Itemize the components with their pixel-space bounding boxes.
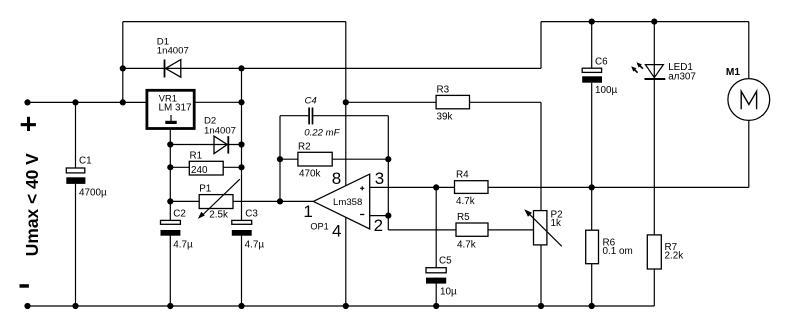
- C1 positive plate: [66, 168, 85, 173]
- D2 cathode bar: [227, 136, 229, 154]
- LED LED1: [631, 62, 696, 83]
- node : P2 ground junction: [538, 303, 544, 309]
- wire : P2 bottom vertical: [540, 245, 542, 306]
- svg-text:4700µ: 4700µ: [79, 188, 107, 199]
- op-amp OP1 Lm358: [313, 174, 369, 229]
- R2 body box: [298, 152, 332, 166]
- wire : top-right horizontal rail: [541, 21, 749, 23]
- resistor R2: [298, 142, 332, 180]
- wire : D2 horizontal wire: [170, 144, 241, 146]
- C2 positive plate: [161, 220, 181, 224]
- C5 positive plate: [426, 268, 446, 273]
- C6 negative plate: [582, 76, 602, 82]
- resistor R1: [189, 151, 223, 176]
- P1 wiper arrow shaft: [202, 179, 240, 215]
- capacitor C4: [304, 96, 340, 139]
- R7 body box: [647, 235, 661, 269]
- wire : R5 horizontal wire to P2: [388, 229, 533, 231]
- wire : P2 top vertical: [540, 102, 542, 210]
- wire : C4 wire right segment: [313, 115, 388, 117]
- node : D2 cathode junction: [238, 141, 244, 147]
- capacitor C3: [232, 208, 265, 250]
- wire : M1 top vertical: [748, 22, 750, 79]
- svg-text:3: 3: [375, 169, 384, 188]
- node : C6 top rail junction: [589, 19, 595, 25]
- P1 wiper arrow head: [198, 212, 205, 219]
- node : R1 right junction: [238, 164, 244, 170]
- M1 motor circle: [728, 79, 770, 121]
- resistor R3: [436, 85, 469, 123]
- wire : op-amp pin 2 stub: [370, 215, 389, 217]
- capacitor C1: [66, 156, 107, 199]
- wire : feedback left vertical x=280: [279, 116, 281, 202]
- svg-text:10µ: 10µ: [440, 287, 457, 298]
- M1 letter M glyph: [741, 91, 756, 109]
- capacitor C2: [161, 208, 194, 250]
- node : R6 ground junction: [589, 303, 595, 309]
- svg-text:R5: R5: [457, 212, 470, 223]
- wire : C1 vertical lower part: [75, 184, 77, 306]
- C3 positive plate: [232, 220, 252, 224]
- node : ground left terminal: [24, 303, 30, 309]
- diode D2: [204, 116, 236, 154]
- wire : M1 bottom vertical: [748, 121, 750, 188]
- node : R6 top junction: [589, 184, 595, 190]
- wire : ground bottom rail: [28, 305, 655, 307]
- svg-text:2.5k: 2.5k: [209, 209, 228, 220]
- D2 triangle: [214, 136, 227, 154]
- diode D1: [157, 37, 189, 78]
- wire : R6 vertical: [591, 187, 593, 306]
- minus terminal symbol: [20, 284, 29, 288]
- wire : + input horizontal rail: [28, 101, 147, 103]
- C2 negative plate: [161, 230, 181, 236]
- svg-text:C2: C2: [173, 208, 186, 219]
- svg-text:2: 2: [374, 216, 383, 235]
- svg-text:1k: 1k: [551, 218, 561, 229]
- R4 body box: [455, 181, 489, 194]
- svg-text:1n4007: 1n4007: [157, 46, 189, 57]
- resistor R4: [455, 170, 489, 208]
- wire : op-amp pin 4 vertical to ground rail: [345, 217, 347, 306]
- svg-text:Umax < 40 V: Umax < 40 V: [22, 153, 42, 256]
- wire : C6 vertical lower part down to R4 wire: [591, 83, 593, 188]
- potentiometer P2: [524, 209, 562, 246]
- wire : VR1 output to vertical x=241.5: [194, 101, 241, 103]
- svg-text:4: 4: [332, 221, 341, 240]
- svg-text:2.2k: 2.2k: [665, 250, 684, 261]
- C4 left plate: [308, 108, 310, 125]
- node : C3 ground junction: [238, 303, 244, 309]
- resistor R7: [647, 235, 683, 269]
- wire : vertical x=241.5 lower part (C3 to ground rail): [241, 235, 243, 306]
- node : VR1 ADJ / D2 junction: [167, 141, 173, 147]
- svg-text:8: 8: [332, 169, 341, 188]
- wire : P1 wire to op-amp output pin 1: [170, 200, 313, 202]
- node : D1 anode rail junction: [238, 65, 244, 71]
- wire : R2 horizontal wire: [280, 158, 388, 160]
- svg-text:4.7k: 4.7k: [456, 196, 475, 207]
- svg-text:4.7µ: 4.7µ: [245, 239, 265, 250]
- svg-text:R1: R1: [190, 151, 203, 162]
- OP1 inverting input minus mark: [360, 214, 364, 216]
- node : C1 ground junction: [72, 303, 78, 309]
- LED1 triangle: [645, 65, 663, 78]
- OP1 triangle body: [313, 174, 369, 229]
- node : D1 cathode junction: [120, 65, 126, 71]
- R3 body box: [436, 95, 469, 108]
- wire : C5 vertical upper part: [435, 187, 437, 267]
- resistor R6: [586, 230, 633, 264]
- C6 positive plate: [582, 68, 601, 72]
- wire : vertical x=241.5 upper part (to C3 top plate): [241, 68, 243, 220]
- svg-text:R4: R4: [456, 170, 469, 181]
- svg-text:C3: C3: [245, 208, 258, 219]
- node : + terminal junction: [24, 99, 30, 105]
- svg-text:Lm358: Lm358: [333, 197, 362, 208]
- svg-text:ал307: ал307: [668, 71, 696, 82]
- svg-text:C5: C5: [439, 256, 452, 267]
- svg-text:1n4007: 1n4007: [204, 126, 236, 137]
- potentiometer P1: [198, 179, 240, 220]
- plus terminal symbol: [21, 117, 36, 131]
- capacitor C5: [426, 256, 457, 298]
- wire : D1 horizontal rail y=68.4: [123, 67, 541, 69]
- R5 body box: [456, 223, 488, 236]
- svg-text:39k: 39k: [437, 112, 453, 123]
- wire : VR1 ADJ vertical upper part: [169, 129, 171, 221]
- svg-text:240: 240: [191, 165, 208, 176]
- OP1 non-inverting input plus mark: [360, 186, 364, 190]
- svg-text:0.22 mF: 0.22 mF: [304, 127, 340, 138]
- LED1 emission arrow 2 shaft: [634, 70, 637, 73]
- svg-text:C1: C1: [79, 156, 92, 167]
- VR1 body box: [147, 90, 194, 128]
- wire : rail from x=345.8 to R3 and on to P2 corner: [346, 101, 541, 103]
- node : x=122.8 on + rail: [120, 99, 126, 105]
- svg-text:C4: C4: [305, 96, 317, 107]
- C1 negative plate: [66, 177, 85, 184]
- wire : C5 vertical lower part: [435, 278, 437, 307]
- node : pin8 rail junction: [343, 99, 349, 105]
- wire : R7 bottom vertical: [653, 269, 655, 306]
- svg-text:470k: 470k: [299, 169, 320, 180]
- svg-text:C6: C6: [595, 57, 608, 68]
- wire : pin 3 / R4 horizontal wire to M1: [370, 186, 749, 188]
- LED1 emission arrow 1 shaft: [640, 66, 643, 69]
- wire : LED1 vertical: [653, 22, 655, 235]
- voltage regulator VR1 LM 317: [147, 90, 194, 128]
- C5 negative plate: [426, 278, 446, 284]
- LED1 emission arrow 1 head: [637, 62, 642, 67]
- LED1 cathode bar: [645, 78, 666, 80]
- node : feedback tap on output wire: [277, 198, 283, 204]
- wire : vertical x=541 up to top-right rail: [540, 22, 542, 69]
- node : R1 left junction: [167, 164, 173, 170]
- P2 body box: [534, 211, 547, 245]
- node : VR1 output junction: [238, 99, 244, 105]
- svg-text:4.7µ: 4.7µ: [173, 239, 193, 250]
- node : R2 right junction: [385, 156, 391, 162]
- P2 wiper arrow head: [524, 209, 532, 217]
- svg-text:100µ: 100µ: [595, 85, 617, 96]
- svg-text:M1: M1: [726, 67, 740, 78]
- LED1 emission arrow 2 head: [631, 66, 636, 71]
- svg-text:0.1 om: 0.1 om: [603, 246, 633, 257]
- wire : top-left horizontal wire: [123, 21, 346, 23]
- capacitor C6: [582, 57, 617, 97]
- VR1 adjust pin mark: [170, 115, 172, 121]
- node : R2 left junction: [277, 156, 283, 162]
- wire : R1 horizontal wire: [170, 166, 241, 168]
- svg-text:R2: R2: [298, 142, 311, 153]
- R1 body box: [189, 161, 223, 175]
- svg-text:LM 317: LM 317: [159, 102, 192, 113]
- node : C2 ground junction: [167, 303, 173, 309]
- node : P1 left junction: [167, 198, 173, 204]
- svg-text:4.7k: 4.7k: [457, 239, 476, 250]
- P2 wiper arrow shaft: [529, 213, 562, 246]
- svg-text:R3: R3: [437, 85, 450, 96]
- svg-text:OP1: OP1: [310, 221, 328, 231]
- wire : VR1 ADJ vertical lower part (C2 to ground rail): [169, 235, 171, 306]
- node : pin 2 junction: [385, 213, 391, 219]
- wire : long vertical x=345.8 (top wire to op-amp pin 8): [345, 22, 347, 186]
- node : LED1 top rail junction: [651, 19, 657, 25]
- P1 body box: [199, 195, 233, 209]
- wire : pin 2 jog down to R5 level: [387, 216, 389, 230]
- wire : vertical x=122.8 from top wire to + rail: [122, 22, 124, 103]
- node : C5 ground junction: [433, 303, 439, 309]
- node : C5 top junction: [433, 184, 439, 190]
- svg-text:P1: P1: [199, 183, 212, 194]
- D1 triangle: [166, 60, 181, 78]
- node : C1 top junction: [72, 99, 78, 105]
- wire : C6 vertical upper part: [591, 22, 593, 69]
- motor M1: [726, 67, 770, 120]
- C4 right plate: [312, 108, 314, 125]
- R6 body box: [586, 230, 599, 264]
- svg-text:1: 1: [303, 202, 312, 221]
- node : pin4 ground junction: [343, 303, 349, 309]
- D1 cathode bar: [164, 60, 166, 78]
- wire : C4 wire left segment: [280, 115, 308, 117]
- wire : C1 vertical upper part: [75, 102, 77, 168]
- C3 negative plate: [232, 230, 252, 236]
- resistor R5: [456, 212, 488, 251]
- wire : feedback right vertical x=388.3: [387, 116, 389, 216]
